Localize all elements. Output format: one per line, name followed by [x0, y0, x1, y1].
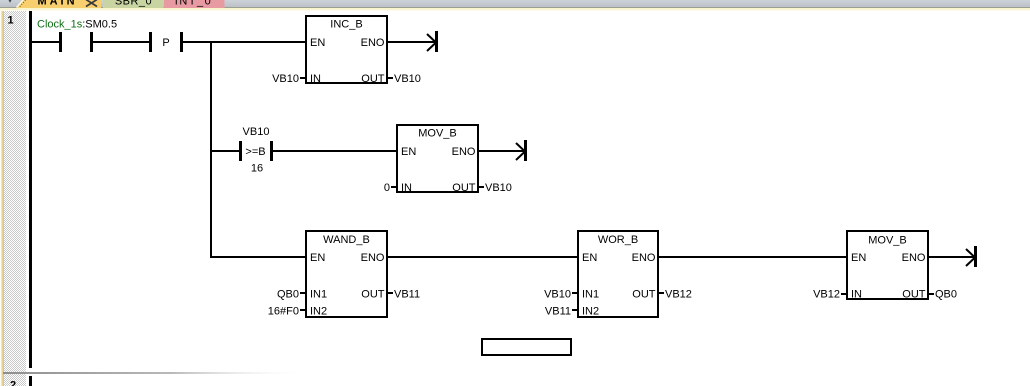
- network number gutter (hatched): [4, 11, 26, 386]
- svg-text:16#F0: 16#F0: [268, 306, 299, 318]
- arrow bar rung2: [524, 140, 527, 161]
- svg-text:IN: IN: [401, 182, 412, 194]
- wire rung3 corner to WAND_B: [212, 256, 305, 258]
- MOV_B rung3 output tick: [929, 293, 934, 295]
- svg-text:IN: IN: [851, 289, 862, 301]
- arrow head rung3: [966, 249, 975, 266]
- arrow head rung1: [427, 34, 436, 51]
- tab bar background: [0, 0, 1030, 11]
- box MOV_B rung2: [397, 125, 478, 192]
- svg-text:P: P: [162, 37, 169, 49]
- svg-text:WOR_B: WOR_B: [598, 234, 638, 246]
- contact Clock_1s:SM0.5 left bar: [59, 32, 62, 52]
- box INC_B: [306, 16, 387, 83]
- junction vertical wire down: [210, 41, 212, 258]
- edge contact P right bar: [180, 32, 183, 52]
- svg-text:>=B: >=B: [245, 146, 265, 158]
- box MOV_B rung3: [847, 231, 928, 299]
- svg-text:0: 0: [384, 182, 390, 194]
- svg-text:INT_0: INT_0: [175, 0, 212, 8]
- box WAND_B: [306, 231, 387, 317]
- wire rail to contact1: [31, 41, 59, 43]
- wire compare to MOV_B: [272, 150, 396, 152]
- svg-text:ENO: ENO: [361, 37, 385, 49]
- svg-text:EN: EN: [310, 252, 325, 264]
- svg-text:VB11: VB11: [545, 306, 571, 318]
- svg-text:OUT: OUT: [902, 289, 926, 301]
- wire contact1 to P contact: [92, 41, 149, 43]
- wire WAND_B to WOR_B: [388, 256, 577, 258]
- svg-text:VB10: VB10: [243, 126, 270, 138]
- svg-text:MOV_B: MOV_B: [868, 235, 907, 247]
- svg-text:ENO: ENO: [902, 252, 926, 264]
- WAND_B IN1 tick: [300, 292, 305, 294]
- svg-text:MAIN: MAIN: [37, 0, 77, 8]
- svg-text:IN: IN: [310, 73, 321, 85]
- tab MAIN (active, yellow): [17, 0, 102, 8]
- edge contact P left bar: [149, 32, 152, 52]
- box WOR_B: [578, 231, 658, 317]
- MOV_B rung3 input tick: [841, 293, 846, 295]
- nav arrow top-left: [9, 0, 12, 3]
- svg-text:EN: EN: [582, 252, 597, 264]
- INC_B input tick: [300, 77, 305, 79]
- power rail network 1: [29, 11, 32, 368]
- svg-text:VB10: VB10: [544, 289, 571, 301]
- wire MOV_B ENO to arrow rung2: [479, 150, 524, 152]
- svg-text:OUT: OUT: [361, 73, 385, 85]
- MOV_B rung2 input tick: [391, 186, 396, 188]
- svg-text:VB10: VB10: [272, 73, 299, 85]
- svg-text:IN2: IN2: [582, 306, 599, 318]
- arrow bar rung3: [974, 246, 977, 267]
- compare contact left bar: [239, 141, 242, 161]
- compare contact right bar: [270, 141, 273, 161]
- svg-text:VB10: VB10: [485, 182, 512, 194]
- WAND_B output tick: [388, 292, 393, 294]
- svg-text:INC_B: INC_B: [330, 19, 362, 31]
- svg-text:2: 2: [10, 380, 16, 386]
- svg-text:VB10: VB10: [394, 73, 421, 85]
- svg-text:WAND_B: WAND_B: [323, 234, 370, 246]
- tab SBR_0 (green): [103, 0, 164, 8]
- svg-text:VB12: VB12: [665, 289, 692, 301]
- wire P contact to INC_B: [183, 41, 305, 43]
- svg-text:OUT: OUT: [452, 182, 476, 194]
- svg-text:OUT: OUT: [632, 289, 656, 301]
- svg-text:ENO: ENO: [632, 252, 656, 264]
- INC_B output tick: [388, 77, 393, 79]
- tab MAIN close X icon: [86, 0, 97, 7]
- svg-text:Clock_1s:SM0.5: Clock_1s:SM0.5: [37, 19, 117, 31]
- svg-text:EN: EN: [401, 146, 416, 158]
- WAND_B IN2 tick: [300, 309, 305, 311]
- left yellow border strip: [0, 11, 4, 386]
- svg-text:EN: EN: [310, 37, 325, 49]
- svg-text:QB0: QB0: [935, 289, 957, 301]
- WOR_B output tick: [659, 292, 664, 294]
- contact Clock_1s:SM0.5 right bar: [90, 32, 93, 52]
- empty comment box bottom: [482, 339, 571, 355]
- svg-text:VB12: VB12: [813, 289, 840, 301]
- svg-text:1: 1: [8, 15, 14, 27]
- svg-text:IN2: IN2: [310, 306, 327, 318]
- WOR_B IN2 tick: [572, 309, 577, 311]
- power rail network 2: [29, 376, 32, 386]
- wire INC_B ENO to arrow: [388, 41, 435, 43]
- svg-text:ENO: ENO: [452, 146, 476, 158]
- svg-text:QB0: QB0: [277, 289, 299, 301]
- wire WOR_B to MOV_B rung3: [659, 256, 846, 258]
- wire branch rung2 to compare contact: [210, 150, 239, 152]
- svg-text:ENO: ENO: [361, 252, 385, 264]
- arrow head rung2: [516, 143, 525, 160]
- svg-text:OUT: OUT: [361, 289, 385, 301]
- tab INT_0 (red): [164, 0, 225, 8]
- svg-text:EN: EN: [851, 252, 866, 264]
- MOV_B rung2 output tick: [479, 186, 484, 188]
- svg-text:VB11: VB11: [394, 289, 420, 301]
- svg-text:IN1: IN1: [582, 289, 599, 301]
- svg-text:16: 16: [251, 163, 263, 175]
- svg-text:SBR_0: SBR_0: [115, 0, 152, 8]
- wire MOV_B rung3 to arrow: [929, 256, 974, 258]
- svg-text:IN1: IN1: [310, 289, 327, 301]
- network separator line: [3, 372, 310, 374]
- arrow bar rung1: [435, 31, 438, 52]
- WOR_B IN1 tick: [572, 292, 577, 294]
- svg-text:MOV_B: MOV_B: [418, 128, 457, 140]
